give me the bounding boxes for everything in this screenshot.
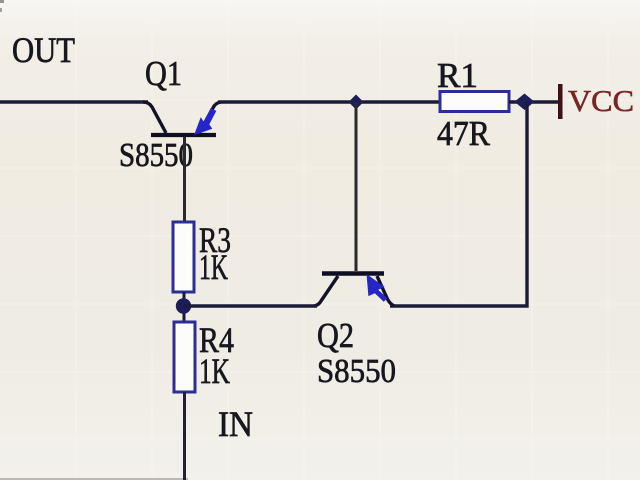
wire R3 to R4 xyxy=(183,292,186,322)
resistor R3 xyxy=(173,222,194,292)
wire junction to Q2 collector xyxy=(184,304,317,307)
junction node B xyxy=(515,94,535,111)
Q2 emitter arrow xyxy=(367,274,388,302)
svg-text:1K: 1K xyxy=(199,247,228,287)
resistor R1 xyxy=(440,92,509,112)
Q1 emitter arrow xyxy=(194,108,216,135)
wire OUT net xyxy=(0,100,148,103)
wire R4 to IN xyxy=(183,392,186,480)
svg-text:IN: IN xyxy=(218,404,253,444)
svg-text:R1: R1 xyxy=(437,56,478,95)
svg-text:OUT: OUT xyxy=(12,30,75,70)
VCC power terminal bar xyxy=(558,84,563,119)
transistor Q2 (PNP S8550) xyxy=(314,274,394,307)
wire node A to Q2 base xyxy=(355,102,358,271)
svg-text:Q2: Q2 xyxy=(317,316,354,355)
transistor Q1 (PNP S8550) xyxy=(143,102,221,135)
resistor R4 xyxy=(174,322,195,392)
svg-text:VCC: VCC xyxy=(568,83,634,118)
wire node B down right side xyxy=(390,102,527,306)
junction node R3/R4 xyxy=(176,298,191,313)
wire Q1 base to R3 xyxy=(183,137,186,222)
wire R1 to VCC xyxy=(509,100,558,103)
svg-text:Q1: Q1 xyxy=(145,54,182,93)
svg-text:1K: 1K xyxy=(199,351,230,391)
svg-text:S8550: S8550 xyxy=(119,137,193,174)
svg-text:47R: 47R xyxy=(437,114,491,153)
wire Q1 emitter to R1 xyxy=(218,100,440,103)
svg-text:S8550: S8550 xyxy=(317,353,396,390)
junction node A xyxy=(349,95,364,110)
